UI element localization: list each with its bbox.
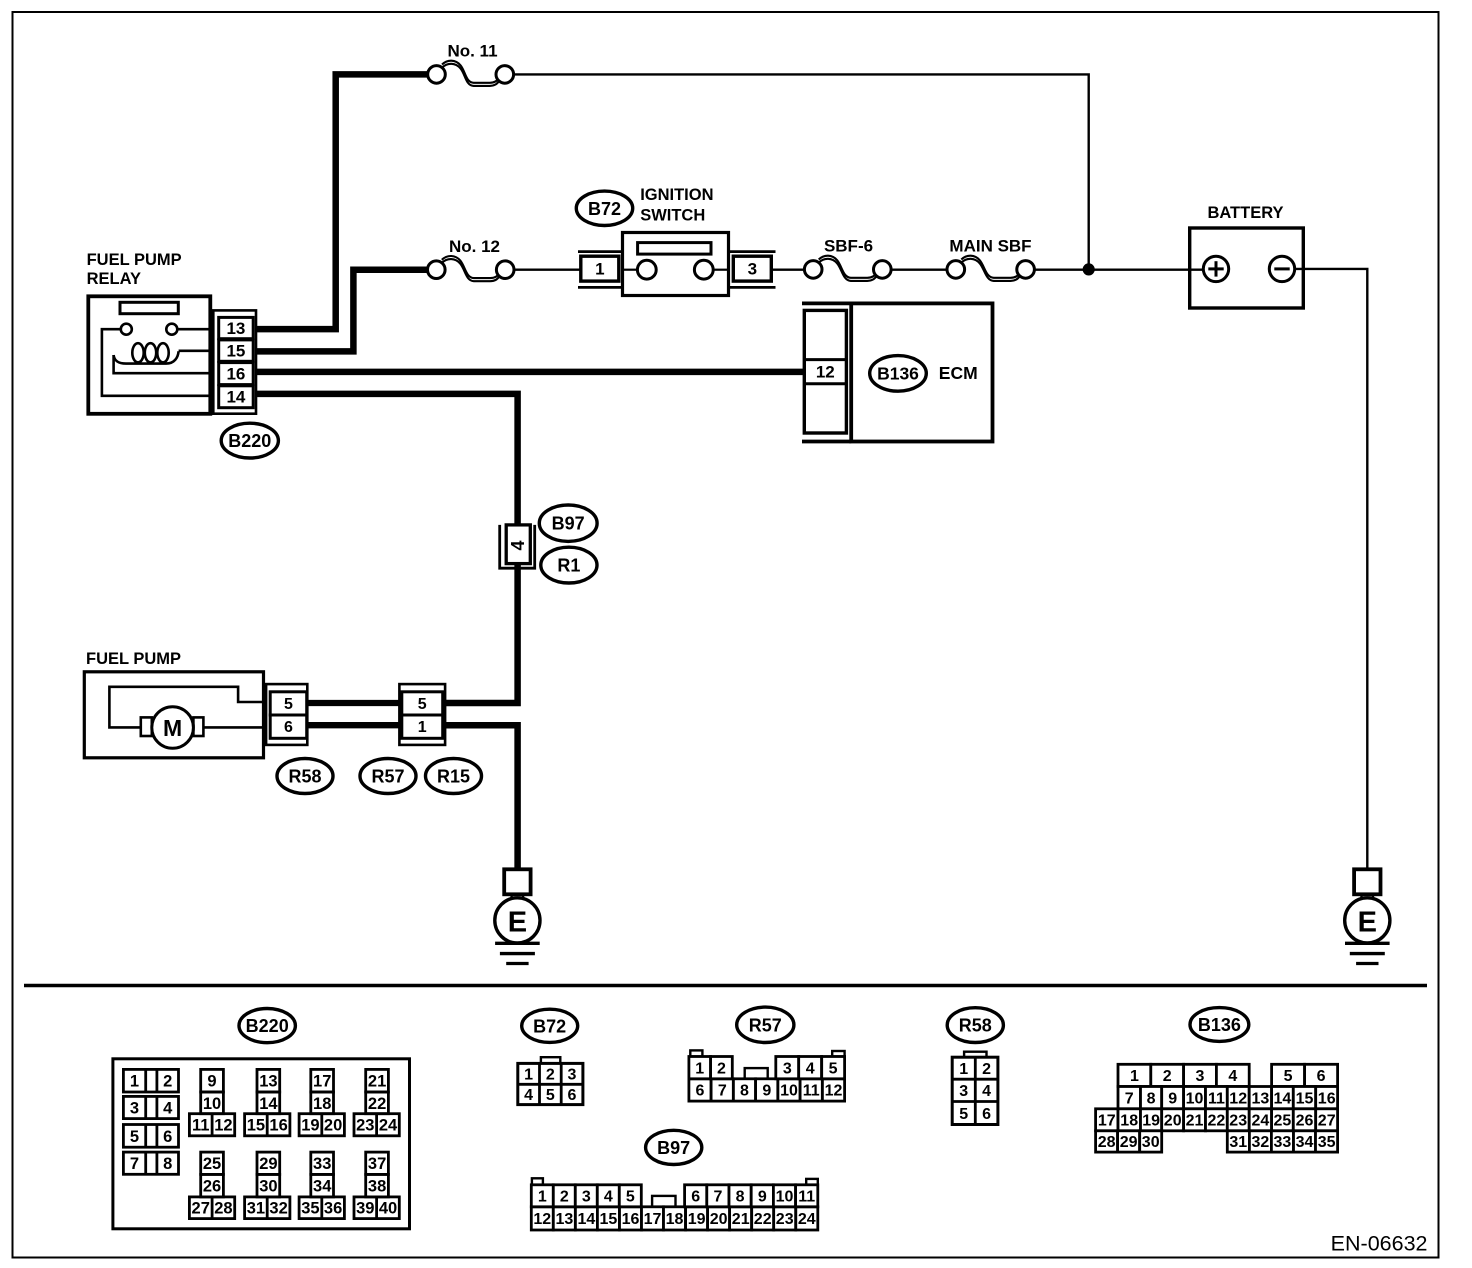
svg-text:32: 32	[269, 1200, 287, 1218]
svg-text:4: 4	[806, 1060, 815, 1077]
svg-text:B72: B72	[533, 1016, 566, 1036]
svg-text:21: 21	[368, 1073, 386, 1091]
svg-text:1: 1	[695, 1060, 704, 1077]
svg-text:5: 5	[418, 696, 427, 713]
wire: fuse No.12 to ignition switch connector 1 (thin)	[514, 269, 581, 271]
svg-text:18: 18	[1120, 1113, 1138, 1130]
wire: fuse MAIN SBF to battery plus terminal (thin)	[1034, 269, 1205, 271]
svg-text:2: 2	[1163, 1068, 1172, 1085]
svg-text:B97: B97	[657, 1138, 690, 1158]
connector 3 (ignition switch B72 pin 3)	[729, 252, 776, 288]
label BATTERY	[1207, 204, 1283, 222]
ECM box	[802, 303, 993, 441]
svg-text:6: 6	[982, 1106, 991, 1123]
relay pin 14	[219, 386, 254, 408]
relay contact terminals	[121, 324, 178, 335]
connector B97 pinout	[531, 1178, 818, 1230]
label "MAIN SBF"	[949, 236, 1031, 255]
svg-text:3: 3	[1196, 1068, 1205, 1085]
svg-text:7: 7	[713, 1189, 722, 1206]
svg-text:31: 31	[247, 1200, 265, 1218]
svg-text:2: 2	[560, 1189, 569, 1206]
svg-text:12: 12	[816, 363, 835, 382]
svg-text:11: 11	[1208, 1090, 1225, 1107]
svg-text:No. 11: No. 11	[447, 41, 497, 60]
svg-text:4: 4	[604, 1189, 613, 1206]
svg-text:7: 7	[718, 1083, 727, 1100]
svg-text:5: 5	[1284, 1068, 1293, 1085]
svg-text:17: 17	[1098, 1113, 1116, 1130]
oval R1 (schematic)	[541, 547, 597, 583]
svg-text:18: 18	[313, 1095, 331, 1113]
svg-text:No. 12: No. 12	[449, 237, 500, 256]
R57 pin 1	[402, 715, 443, 738]
svg-text:16: 16	[1318, 1090, 1336, 1107]
R58 pin 5	[270, 692, 307, 715]
svg-text:14: 14	[226, 388, 245, 407]
svg-text:FUEL PUMP: FUEL PUMP	[86, 650, 181, 668]
svg-text:15: 15	[1296, 1090, 1314, 1107]
svg-text:16: 16	[622, 1211, 640, 1228]
svg-text:6: 6	[284, 719, 293, 736]
svg-text:2: 2	[163, 1073, 172, 1091]
svg-text:12: 12	[825, 1083, 843, 1100]
svg-text:6: 6	[568, 1087, 577, 1104]
svg-text:3: 3	[783, 1060, 792, 1077]
svg-text:14: 14	[259, 1095, 278, 1113]
svg-text:29: 29	[259, 1155, 277, 1173]
svg-text:IGNITION: IGNITION	[640, 186, 713, 204]
oval B220 (schematic)	[221, 423, 278, 458]
svg-text:37: 37	[368, 1155, 386, 1173]
label FUEL PUMP	[86, 650, 181, 668]
svg-text:4: 4	[982, 1083, 991, 1100]
svg-text:22: 22	[1208, 1113, 1226, 1130]
label FUEL PUMP RELAY	[87, 251, 182, 288]
oval R57 (pinout)	[737, 1007, 794, 1042]
svg-text:3: 3	[582, 1189, 591, 1206]
svg-text:SWITCH: SWITCH	[640, 207, 705, 225]
svg-text:27: 27	[192, 1200, 210, 1218]
ground E (fuel pump circuit)	[495, 869, 540, 963]
svg-text:24: 24	[379, 1117, 398, 1135]
svg-text:4: 4	[163, 1099, 173, 1117]
svg-text:17: 17	[644, 1211, 662, 1228]
fuel pump motor M	[141, 707, 204, 749]
svg-text:19: 19	[301, 1117, 319, 1135]
svg-text:EN-06632: EN-06632	[1331, 1231, 1428, 1255]
svg-text:SBF-6: SBF-6	[824, 236, 873, 255]
svg-text:16: 16	[226, 364, 245, 383]
svg-text:21: 21	[732, 1211, 750, 1228]
oval B220 (pinout)	[239, 1009, 295, 1043]
svg-text:24: 24	[798, 1211, 816, 1228]
svg-text:R57: R57	[749, 1015, 782, 1035]
oval B136 (pinout)	[1190, 1008, 1249, 1042]
relay internal wiring	[102, 329, 210, 396]
wire: fuse No.11 to junction above battery (thin)	[513, 74, 1088, 269]
svg-text:5: 5	[829, 1060, 838, 1077]
oval B97 (schematic)	[539, 505, 597, 541]
svg-text:33: 33	[313, 1155, 331, 1173]
svg-text:3: 3	[748, 260, 757, 279]
svg-text:13: 13	[556, 1211, 574, 1228]
ignition switch B72	[623, 233, 729, 296]
svg-text:RELAY: RELAY	[87, 270, 141, 288]
svg-text:1: 1	[418, 719, 427, 736]
svg-text:10: 10	[776, 1189, 794, 1206]
svg-text:11: 11	[803, 1083, 820, 1100]
svg-text:30: 30	[259, 1178, 277, 1196]
battery plus terminal	[1203, 256, 1228, 281]
svg-text:5: 5	[130, 1128, 139, 1146]
fuse SBF-6	[804, 256, 891, 281]
svg-text:15: 15	[600, 1211, 618, 1228]
svg-text:12: 12	[533, 1211, 551, 1228]
svg-text:1: 1	[538, 1189, 547, 1206]
svg-text:2: 2	[546, 1067, 555, 1084]
ground E (battery circuit)	[1345, 869, 1390, 963]
svg-text:4: 4	[524, 1087, 533, 1104]
R57 pin 5	[402, 692, 443, 715]
fuel pump box	[84, 672, 263, 758]
svg-text:6: 6	[696, 1083, 705, 1100]
svg-text:R58: R58	[288, 767, 321, 787]
svg-text:FUEL PUMP: FUEL PUMP	[87, 251, 182, 269]
relay coil	[114, 343, 179, 363]
svg-text:BATTERY: BATTERY	[1207, 204, 1283, 222]
svg-text:20: 20	[710, 1211, 728, 1228]
svg-text:R1: R1	[557, 556, 580, 576]
svg-text:28: 28	[1098, 1134, 1116, 1151]
wire: inline connector 4 down to R57 pin 5 (thick)	[444, 560, 518, 703]
svg-text:R57: R57	[371, 767, 404, 787]
svg-text:17: 17	[313, 1073, 331, 1091]
svg-text:9: 9	[1168, 1090, 1177, 1107]
svg-text:9: 9	[207, 1073, 216, 1091]
svg-text:1: 1	[524, 1067, 533, 1084]
wire: connector 3 to fuse SBF-6 (thin)	[772, 269, 806, 271]
svg-text:2: 2	[717, 1060, 726, 1077]
wire: ignition feed through fuse No.12 to relay pin 15 (thick)	[253, 270, 428, 352]
svg-text:29: 29	[1120, 1134, 1138, 1151]
svg-text:13: 13	[1252, 1090, 1270, 1107]
svg-text:18: 18	[666, 1211, 684, 1228]
oval B136 (schematic)	[870, 356, 927, 392]
svg-text:15: 15	[247, 1117, 265, 1135]
svg-text:39: 39	[356, 1200, 374, 1218]
svg-text:M: M	[163, 715, 182, 741]
svg-text:32: 32	[1252, 1134, 1270, 1151]
svg-text:31: 31	[1229, 1134, 1247, 1151]
wire: fuse SBF-6 to fuse MAIN SBF (thin)	[890, 269, 948, 271]
svg-text:19: 19	[1142, 1113, 1160, 1130]
svg-text:10: 10	[780, 1083, 798, 1100]
svg-text:5: 5	[546, 1087, 555, 1104]
oval B72 (pinout)	[522, 1009, 578, 1042]
wire: relay pin 16 to ECM pin 12 (thick)	[253, 369, 806, 376]
label IGNITION SWITCH	[640, 186, 713, 224]
relay pin 15	[219, 340, 254, 361]
svg-text:11: 11	[192, 1117, 209, 1135]
svg-text:8: 8	[740, 1083, 749, 1100]
svg-text:ECM: ECM	[939, 363, 978, 383]
svg-text:B136: B136	[877, 364, 919, 384]
svg-text:13: 13	[259, 1073, 277, 1091]
svg-text:13: 13	[226, 319, 245, 338]
svg-text:12: 12	[1229, 1090, 1247, 1107]
connector R58 shell (schematic)	[266, 684, 307, 745]
battery minus terminal	[1269, 256, 1294, 281]
fuse No. 11	[428, 61, 514, 86]
relay contact bar	[120, 302, 178, 313]
svg-text:23: 23	[356, 1117, 374, 1135]
svg-text:8: 8	[1147, 1090, 1156, 1107]
label ECM	[939, 363, 978, 383]
svg-text:26: 26	[1296, 1113, 1314, 1130]
svg-text:MAIN SBF: MAIN SBF	[949, 236, 1031, 255]
svg-text:E: E	[1358, 906, 1377, 938]
oval B72 (schematic)	[576, 191, 632, 225]
svg-text:30: 30	[1142, 1134, 1160, 1151]
separator line between schematic and pinouts	[24, 984, 1427, 987]
inline connector 4 (B97 / R1)	[500, 525, 535, 568]
svg-text:B97: B97	[552, 514, 585, 534]
svg-text:1: 1	[595, 260, 604, 279]
connector B136 pinout	[1096, 1064, 1338, 1152]
svg-text:6: 6	[691, 1189, 700, 1206]
svg-text:27: 27	[1318, 1113, 1336, 1130]
label "No. 11"	[447, 41, 497, 60]
svg-text:11: 11	[798, 1189, 815, 1206]
svg-text:5: 5	[626, 1189, 635, 1206]
svg-text:3: 3	[130, 1099, 139, 1117]
connector 1 (ignition switch B72 pin 1)	[578, 252, 623, 288]
wire: relay pin 14 down to inline connector 4 (thick)	[253, 394, 517, 527]
svg-text:8: 8	[736, 1189, 745, 1206]
svg-text:9: 9	[758, 1189, 767, 1206]
svg-text:7: 7	[130, 1155, 139, 1173]
oval R58 (pinout)	[947, 1008, 1003, 1043]
svg-text:3: 3	[959, 1083, 968, 1100]
relay connector B220 outer shell	[213, 310, 256, 413]
svg-text:10: 10	[1186, 1090, 1204, 1107]
svg-text:14: 14	[578, 1211, 596, 1228]
wire: fuel pump pin 6 to R57 pin 1 (thick)	[306, 722, 402, 728]
wire: battery minus terminal to ground E right (thin)	[1295, 269, 1368, 870]
connector B72 pinout	[518, 1057, 583, 1104]
svg-text:1: 1	[130, 1073, 139, 1091]
svg-text:34: 34	[313, 1178, 332, 1196]
svg-text:B72: B72	[588, 199, 621, 219]
svg-text:R15: R15	[437, 767, 470, 787]
svg-text:19: 19	[688, 1211, 706, 1228]
svg-text:35: 35	[301, 1200, 319, 1218]
svg-text:15: 15	[226, 341, 245, 360]
svg-text:22: 22	[754, 1211, 772, 1228]
connector R57 pinout	[689, 1050, 845, 1101]
svg-text:8: 8	[163, 1155, 172, 1173]
connector B220 pinout	[113, 1059, 410, 1229]
svg-text:4: 4	[508, 540, 528, 550]
relay pin 13	[219, 317, 254, 338]
svg-text:2: 2	[982, 1061, 991, 1078]
relay pin 16	[219, 363, 254, 385]
fuse MAIN SBF	[947, 256, 1034, 281]
svg-text:7: 7	[1125, 1090, 1134, 1107]
svg-text:22: 22	[368, 1095, 386, 1113]
svg-text:5: 5	[284, 696, 293, 713]
svg-text:28: 28	[214, 1200, 232, 1218]
svg-text:6: 6	[163, 1128, 172, 1146]
wire: fuel pump pin 5 to R57 pin 5 (thick)	[306, 700, 402, 706]
svg-text:1: 1	[959, 1061, 968, 1078]
oval R15 (schematic)	[426, 759, 482, 794]
svg-text:9: 9	[762, 1083, 771, 1100]
svg-text:36: 36	[324, 1200, 342, 1218]
svg-text:6: 6	[1317, 1068, 1326, 1085]
svg-text:B136: B136	[1198, 1015, 1241, 1035]
svg-text:20: 20	[324, 1117, 342, 1135]
connector R57 shell (schematic)	[399, 684, 445, 745]
svg-text:14: 14	[1274, 1090, 1292, 1107]
label EN-06632	[1331, 1231, 1428, 1255]
svg-text:25: 25	[203, 1155, 221, 1173]
R58 pin 6	[270, 715, 307, 738]
junction node (battery feed splice)	[1083, 264, 1094, 275]
svg-text:E: E	[508, 906, 527, 938]
fuel pump internal wiring	[109, 687, 270, 728]
label "No. 12"	[449, 237, 500, 256]
wire: battery feed through fuse No.11 to relay pin 13 (thick)	[253, 74, 428, 329]
svg-text:4: 4	[1228, 1068, 1237, 1085]
svg-text:16: 16	[269, 1117, 287, 1135]
svg-text:23: 23	[1229, 1113, 1247, 1130]
svg-text:12: 12	[214, 1117, 232, 1135]
svg-text:B220: B220	[246, 1016, 289, 1036]
svg-text:3: 3	[568, 1067, 577, 1084]
oval B97 (pinout)	[646, 1130, 702, 1164]
svg-text:26: 26	[203, 1178, 221, 1196]
svg-text:24: 24	[1252, 1113, 1270, 1130]
svg-text:33: 33	[1274, 1134, 1292, 1151]
svg-text:20: 20	[1164, 1113, 1182, 1130]
oval R58 (schematic)	[277, 759, 333, 794]
fuse No. 12	[428, 256, 515, 281]
oval R57 (schematic)	[360, 759, 416, 794]
fuel pump relay box	[88, 296, 210, 414]
svg-text:25: 25	[1274, 1113, 1292, 1130]
svg-text:R58: R58	[959, 1016, 992, 1036]
svg-text:21: 21	[1186, 1113, 1204, 1130]
svg-text:34: 34	[1296, 1134, 1314, 1151]
svg-text:38: 38	[368, 1178, 386, 1196]
svg-text:1: 1	[1130, 1068, 1139, 1085]
svg-text:40: 40	[379, 1200, 397, 1218]
ECM connector column (B136), pin 12	[804, 310, 846, 433]
svg-text:5: 5	[959, 1106, 968, 1123]
wire: R57 pin 1 to ground E (thick)	[444, 725, 518, 869]
connector R58 pinout	[952, 1052, 998, 1125]
label "SBF-6"	[824, 236, 873, 255]
battery	[1190, 228, 1304, 308]
svg-text:23: 23	[776, 1211, 794, 1228]
svg-text:10: 10	[203, 1095, 221, 1113]
svg-text:35: 35	[1318, 1134, 1336, 1151]
svg-text:B220: B220	[228, 431, 271, 451]
